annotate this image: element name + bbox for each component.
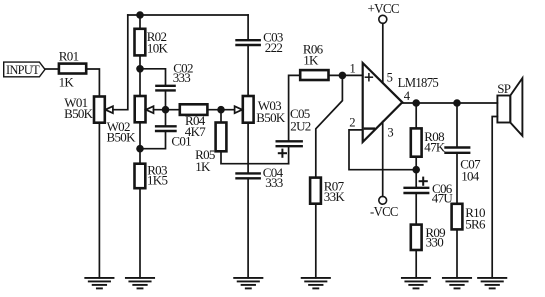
wire node to R05 — [220, 110, 222, 123]
wire output to R08 — [415, 103, 417, 128]
svg-text:5R6: 5R6 — [465, 217, 486, 232]
wire W02 wiper to bus — [154, 109, 180, 111]
wire R04 to W03 wiper — [207, 109, 234, 111]
svg-text:330: 330 — [426, 235, 444, 250]
wire top rail — [128, 14, 248, 16]
wire W01 wiper to top rail — [113, 15, 128, 110]
svg-text:B50K: B50K — [107, 130, 137, 145]
resistor R04 — [180, 104, 208, 139]
wire C05 top to R06 — [289, 75, 301, 141]
wire R06 to op-amp + input — [329, 74, 363, 76]
wire rail to R02 — [139, 15, 141, 29]
potentiometer W02 — [107, 96, 154, 145]
resistor R08 — [411, 128, 446, 156]
potentiometer W03 — [235, 96, 286, 125]
wire C01 bottom to W02 bottom — [140, 131, 166, 149]
svg-text:INPUT: INPUT — [6, 62, 40, 77]
svg-text:2U2: 2U2 — [290, 118, 310, 133]
wire bus to C01 — [165, 110, 167, 127]
node dot R08/C06/feedback — [412, 166, 420, 174]
resistor R06 — [300, 42, 328, 80]
wire output to C07 — [456, 103, 458, 148]
node dot R04/R05/W03 — [217, 106, 225, 114]
wire C02 bottom to bus — [165, 90, 167, 109]
svg-text:1K: 1K — [303, 52, 319, 67]
wire input to R01 — [45, 68, 59, 70]
potentiometer W01 — [64, 95, 113, 123]
wire C07 to R10 — [456, 153, 458, 204]
capacitor C06 electrolytic — [405, 178, 454, 206]
svg-text:LM1875: LM1875 — [398, 75, 440, 90]
svg-text:47U: 47U — [432, 190, 454, 205]
svg-text:104: 104 — [461, 168, 480, 183]
wire W02 bottom to R03 — [139, 122, 141, 163]
wire branch to C02 — [140, 69, 166, 86]
speaker SP — [497, 78, 522, 136]
svg-text:R01: R01 — [59, 49, 79, 64]
node dot R02 bottom / C02 branch — [136, 65, 144, 73]
wire R10 to ground — [456, 229, 458, 277]
svg-text:1: 1 — [350, 62, 356, 76]
ground (C04) — [234, 278, 262, 289]
svg-text:10K: 10K — [147, 41, 169, 56]
wire R03 to ground — [139, 188, 141, 278]
ground (R09) — [402, 278, 430, 289]
capacitor C03 — [237, 29, 283, 54]
svg-text:SP: SP — [497, 81, 511, 96]
node dot output/C07 — [453, 99, 461, 107]
resistor R09 — [411, 225, 445, 250]
capacitor C01 — [156, 126, 191, 148]
wire node to C06 — [415, 170, 417, 188]
svg-text:B50K: B50K — [64, 106, 94, 121]
node dot C02/C01/bus — [162, 106, 170, 114]
resistor R03 — [135, 162, 168, 188]
capacitor C07 — [446, 148, 482, 184]
wire R02 to W02 — [139, 55, 141, 96]
ground (R03) — [126, 278, 154, 289]
wire R07 to ground — [315, 204, 317, 278]
svg-text:47K: 47K — [424, 139, 446, 154]
wire C03 to W03 top — [247, 45, 249, 96]
svg-text:1K5: 1K5 — [147, 173, 167, 188]
node dot C01/W02 bottom — [136, 145, 144, 153]
capacitor C04 — [237, 165, 284, 190]
svg-text:4K7: 4K7 — [185, 124, 206, 139]
capacitor C02 — [156, 61, 193, 91]
wire C05 bottom to net — [288, 146, 290, 164]
resistor R02 — [135, 29, 169, 56]
node dot output/R08 — [412, 99, 420, 107]
ground (W01) — [85, 278, 113, 289]
svg-text:333: 333 — [173, 70, 191, 85]
wire R01 to W01 top — [86, 69, 99, 97]
wire R05 bottom to C05 bottom net — [221, 151, 289, 163]
wire R08 to node — [415, 157, 417, 170]
wire pin2 feedback loop — [349, 130, 416, 170]
svg-text:333: 333 — [265, 175, 283, 190]
resistor R07 — [310, 178, 345, 204]
svg-text:33K: 33K — [324, 189, 346, 204]
input tag INPUT — [4, 62, 45, 77]
wire node to R07 — [316, 75, 343, 177]
svg-text:1K: 1K — [195, 159, 211, 174]
node dot rail/R02 — [136, 11, 144, 19]
wire speaker return to ground — [492, 117, 497, 278]
wire output — [402, 102, 497, 104]
power terminal +VCC — [367, 1, 399, 83]
power terminal -VCC — [370, 122, 398, 219]
wire C06 to R09 — [415, 193, 417, 225]
capacitor C05 electrolytic — [277, 106, 311, 157]
ground (R07) — [302, 278, 330, 289]
wire R09 to ground — [415, 250, 417, 278]
ground (R10) — [443, 278, 471, 289]
svg-text:222: 222 — [265, 40, 283, 55]
wire C04 to ground — [247, 178, 249, 277]
svg-text:1K: 1K — [59, 74, 75, 89]
op-amp U1 LM1875 — [349, 62, 439, 143]
node dot +input/R07 — [339, 72, 347, 80]
svg-text:5: 5 — [387, 70, 393, 84]
resistor R01 — [59, 49, 87, 90]
wire rail to C03 — [247, 15, 249, 40]
svg-text:B50K: B50K — [256, 110, 286, 125]
svg-text:3: 3 — [387, 125, 393, 139]
svg-text:+VCC: +VCC — [367, 1, 399, 16]
wire W01 to ground — [98, 123, 100, 278]
resistor R05 — [195, 123, 226, 175]
svg-text:-VCC: -VCC — [370, 204, 398, 219]
wire W03 bottom to C04 — [247, 123, 249, 174]
resistor R10 — [452, 204, 486, 232]
svg-text:2: 2 — [349, 116, 355, 130]
ground (speaker) — [478, 278, 506, 289]
